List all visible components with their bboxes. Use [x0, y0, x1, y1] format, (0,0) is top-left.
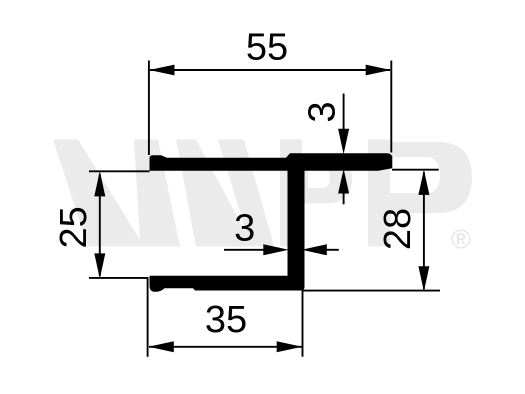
dimension 3 (web): left dimension line [224, 249, 266, 251]
dimension 28: top extension line [392, 169, 439, 171]
svg-text:25: 25 [53, 206, 95, 248]
dimension 35: right arrow [277, 341, 302, 352]
dimension 3 (web): left arrow pointing right [263, 244, 289, 255]
dimension 3 (top flange): dimension line above [343, 94, 345, 133]
dimension 25: bottom extension line [89, 277, 149, 279]
watermark letter V [53, 140, 180, 247]
dimension 55: right arrow [366, 65, 391, 76]
dimension 28: bottom arrow [418, 266, 429, 291]
watermark letter P1 [280, 140, 352, 247]
svg-text:®: ® [451, 225, 471, 255]
dimension 55: right extension line [390, 61, 392, 153]
dimension 3 (top flange): lower arrow pointing up [338, 169, 349, 194]
dimension 25: dimension line [99, 174, 101, 276]
dimension 28: bottom extension line [302, 290, 441, 292]
dimension 28: top arrow [418, 170, 429, 195]
dimension 3 (web): right dimension line [324, 249, 339, 251]
dimension 55: dimension line [150, 69, 390, 71]
dimension 3 (web): right arrow pointing left [302, 244, 327, 255]
dimension 55: left extension line [148, 61, 150, 156]
svg-text:28: 28 [377, 208, 419, 250]
dimension 25: top arrow [94, 171, 105, 197]
dimension 35: left arrow [149, 341, 174, 352]
watermark letter A [176, 140, 274, 247]
dimension 35: left extension line [147, 278, 149, 357]
dimension 35: right extension line [302, 291, 304, 357]
svg-text:35: 35 [205, 299, 247, 341]
svg-text:55: 55 [246, 26, 288, 68]
profile cross-section body [150, 153, 393, 292]
dimension 3 (top flange): upper arrow pointing down [338, 129, 349, 155]
svg-text:3: 3 [302, 101, 344, 122]
dimension 25: top extension line [89, 170, 150, 172]
dimension 25: bottom arrow [94, 253, 105, 278]
watermark letter P2 [368, 140, 472, 247]
dimension 35: dimension line [149, 346, 302, 348]
svg-text:3: 3 [234, 207, 255, 249]
dimension 28: dimension line [423, 172, 425, 289]
dimension 3 (top flange): dimension line below [343, 190, 345, 204]
dimension 55: left arrow [149, 65, 174, 76]
